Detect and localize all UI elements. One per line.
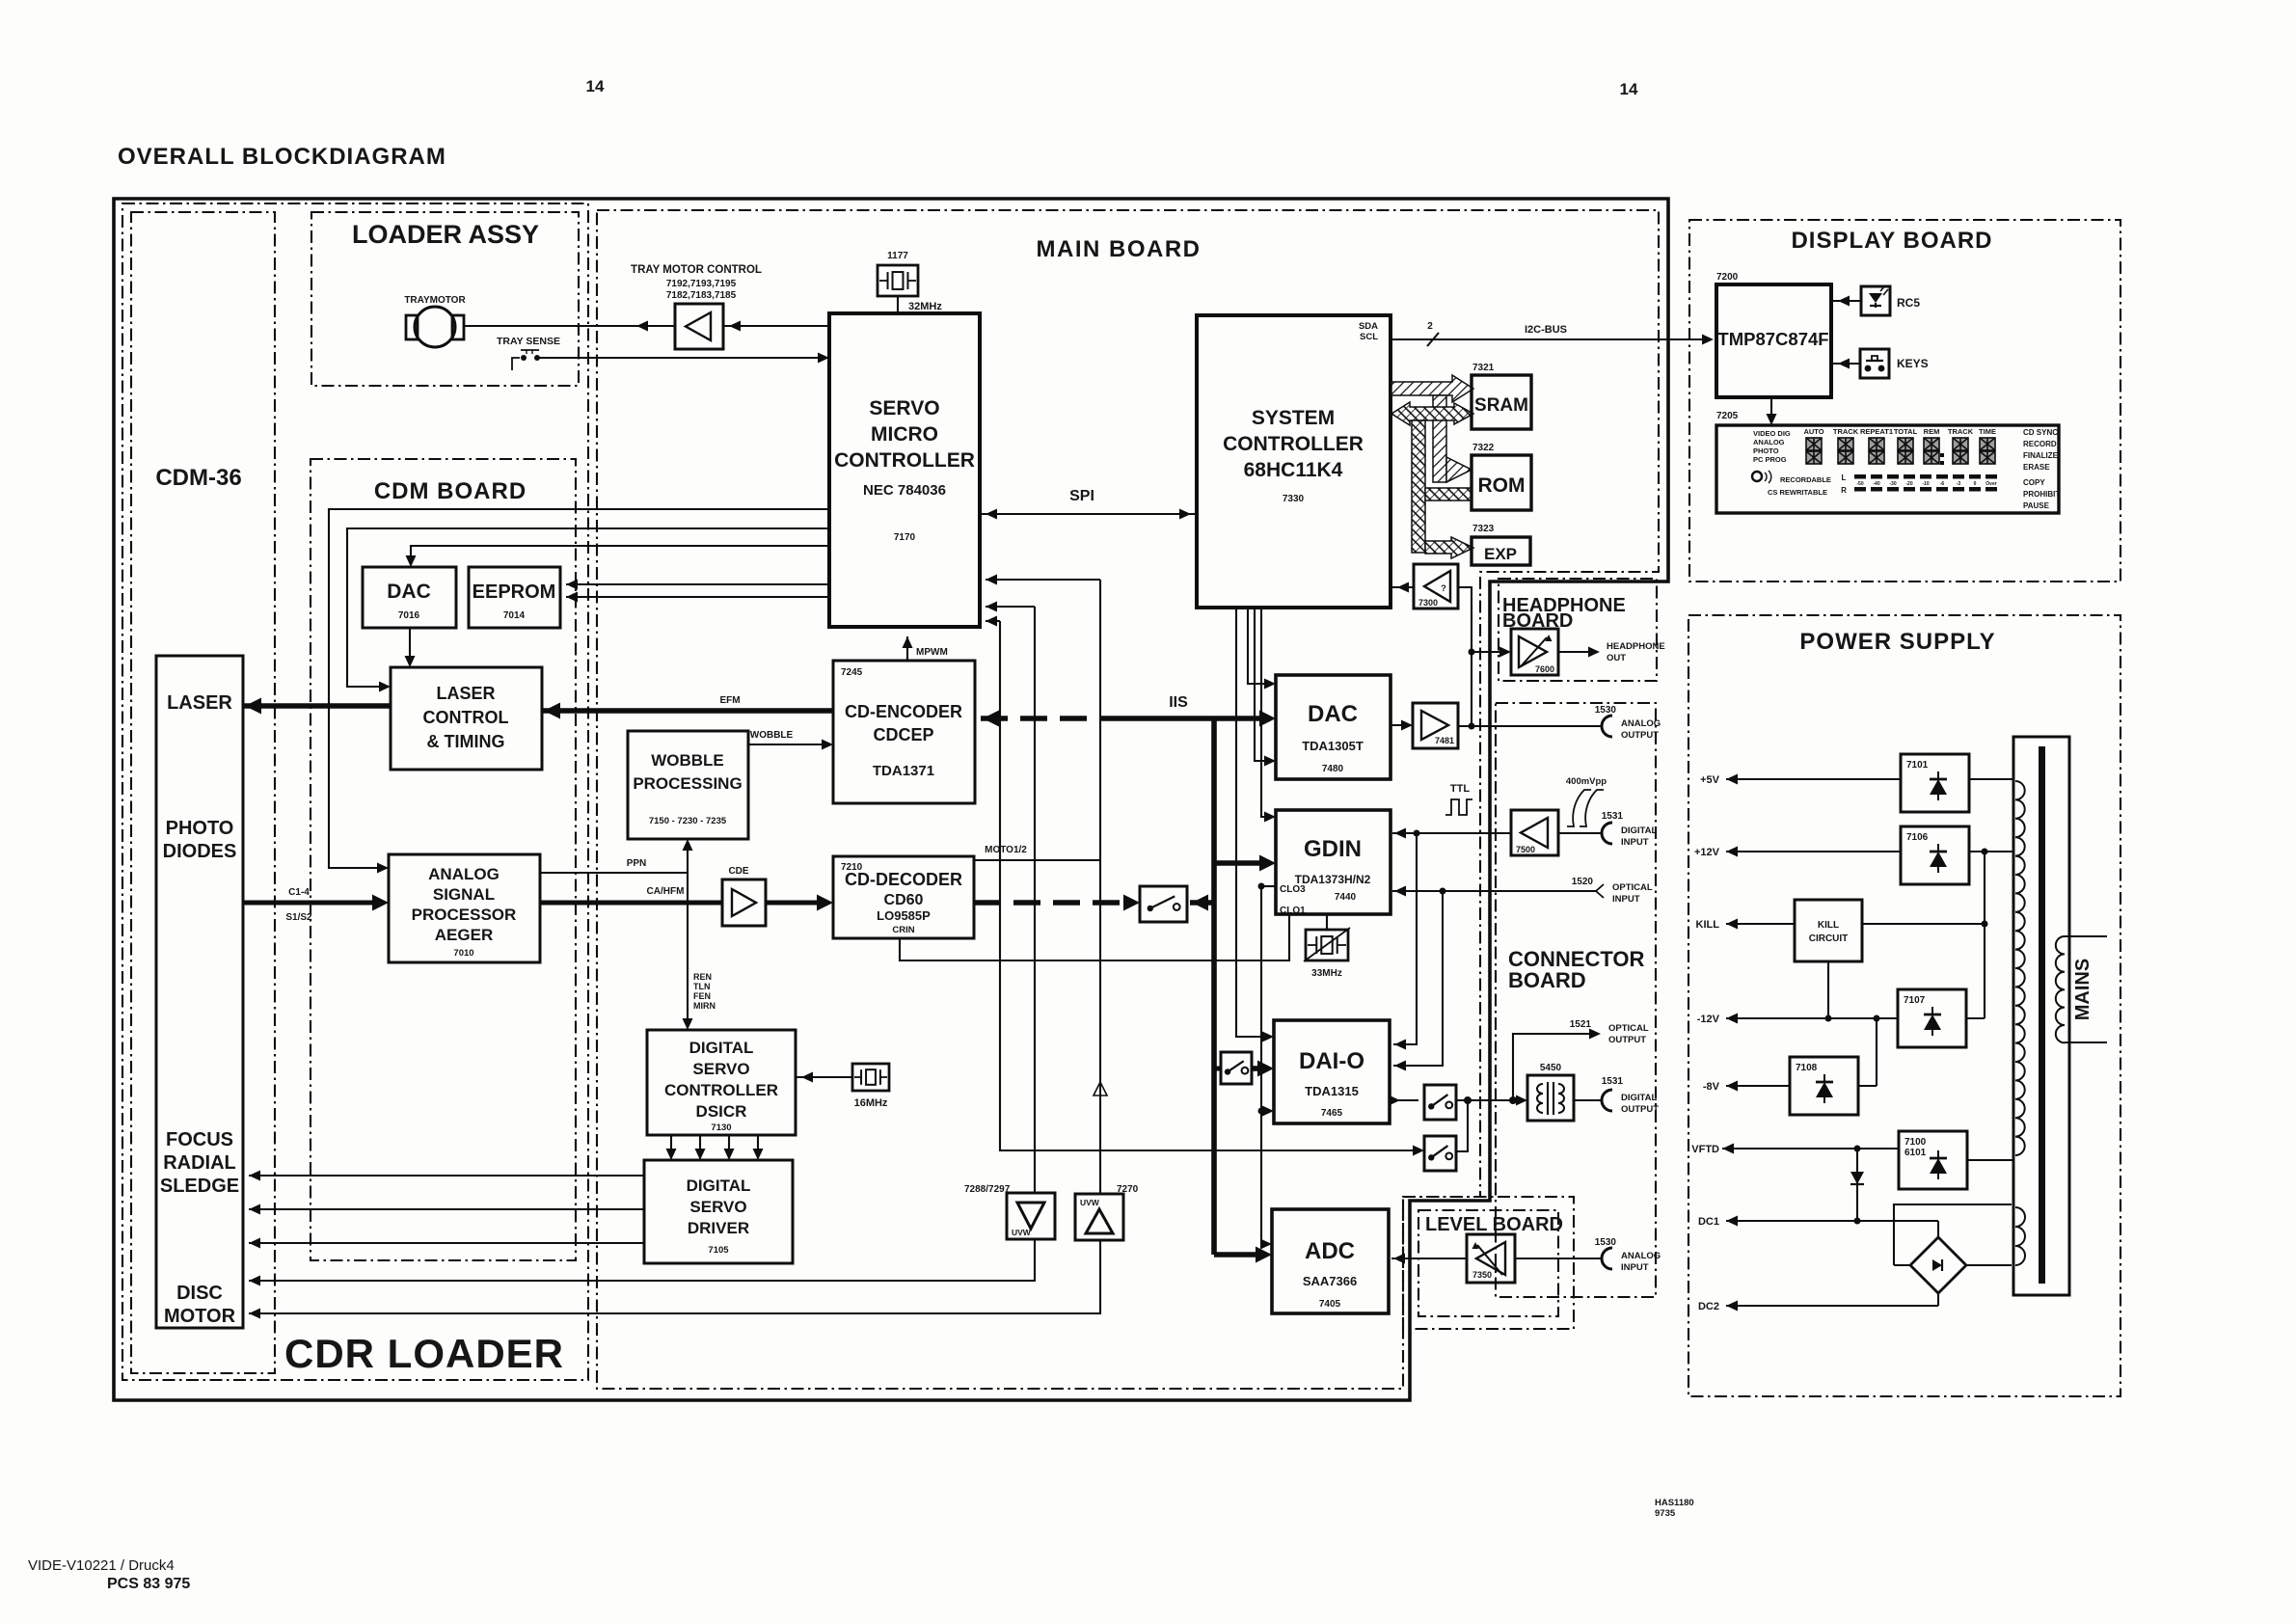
bridge loop wires xyxy=(1894,1264,1910,1266)
svg-text:IIS: IIS xyxy=(1169,694,1188,711)
svg-text:33MHz: 33MHz xyxy=(1311,968,1342,979)
svg-text:HEADPHONE: HEADPHONE xyxy=(1607,641,1665,652)
svg-text:AUTO: AUTO xyxy=(1803,427,1823,436)
svg-text:INPUT: INPUT xyxy=(1621,837,1649,848)
switch DAI-O digital out xyxy=(1424,1085,1456,1120)
switch below xyxy=(1424,1136,1456,1171)
svg-text:RECORDABLE: RECORDABLE xyxy=(1780,475,1831,484)
wire 7300 to controller xyxy=(1391,586,1414,588)
svg-text:SCL: SCL xyxy=(1360,332,1378,342)
svg-text:32MHz: 32MHz xyxy=(908,301,942,312)
optical input connector 1520 xyxy=(1392,890,1596,892)
DAC TDA1305T 7480 xyxy=(1276,675,1391,779)
rectifier 7106 xyxy=(1901,826,1969,884)
wire level board to ADC xyxy=(1391,1258,1467,1259)
svg-text:7200: 7200 xyxy=(1716,272,1739,283)
wire optical output xyxy=(1513,1034,1594,1100)
wire traymotor to control xyxy=(464,325,675,327)
svg-text:7500: 7500 xyxy=(1516,845,1535,854)
svg-text:DAC: DAC xyxy=(387,581,431,603)
svg-text:WOBBLE: WOBBLE xyxy=(750,730,794,741)
CD-ENCODER CDCEP TDA1371 7245 xyxy=(833,661,975,803)
svg-text:ANALOG: ANALOG xyxy=(1753,438,1785,446)
rectifier 7100/6101 xyxy=(1899,1131,1967,1189)
CDR LOADER dash-dot outline xyxy=(122,203,588,1380)
svg-text:MOTO1/2: MOTO1/2 xyxy=(985,845,1027,855)
svg-text:CONTROL: CONTROL xyxy=(423,708,509,727)
svg-text:DISPLAY BOARD: DISPLAY BOARD xyxy=(1791,228,1992,254)
wire servo b to disc motor via 7288 xyxy=(1034,607,1036,1193)
wires driver to focus radial sledge xyxy=(249,1175,644,1177)
svg-text:DIGITAL: DIGITAL xyxy=(1621,825,1657,836)
svg-text:7107: 7107 xyxy=(1904,995,1926,1006)
svg-text:OUTPUT: OUTPUT xyxy=(1608,1035,1646,1045)
MOTO1/2 wire decoder to motor drivers xyxy=(974,859,1100,861)
wire controller to DAC a xyxy=(1248,608,1270,684)
svg-text:-20: -20 xyxy=(1905,481,1912,487)
svg-text:7170: 7170 xyxy=(894,532,916,543)
wire DAI-O output to switch xyxy=(1390,1099,1418,1101)
wire crystal to servo xyxy=(897,296,899,313)
LEVEL BOARD dash-dot outlines xyxy=(1403,1197,1574,1329)
svg-text:CD-DECODER: CD-DECODER xyxy=(845,870,962,889)
CONNECTOR BOARD dash-dot outline xyxy=(1496,703,1656,1297)
wire TMP to display xyxy=(1770,397,1772,419)
svg-text:KILL: KILL xyxy=(1696,919,1720,931)
WOBBLE PROCESSING block xyxy=(628,731,748,839)
LASER CONTROL & TIMING block xyxy=(391,667,542,770)
CRIN wire decoder to GDIN xyxy=(900,914,1289,960)
diode to DC1 xyxy=(1856,1149,1858,1221)
svg-text:-8V: -8V xyxy=(1703,1081,1720,1093)
buffer 7300 xyxy=(1414,564,1458,609)
svg-text:EFM: EFM xyxy=(719,695,740,706)
svg-text:7105: 7105 xyxy=(708,1245,729,1256)
svg-text:FEN: FEN xyxy=(693,991,711,1001)
svg-text:7205: 7205 xyxy=(1716,411,1739,421)
svg-text:SLEDGE: SLEDGE xyxy=(160,1176,239,1197)
svg-text:CD60: CD60 xyxy=(884,892,924,908)
svg-text:MICRO: MICRO xyxy=(871,423,938,446)
traymotor M1 xyxy=(415,307,455,347)
svg-text:PAUSE: PAUSE xyxy=(2023,501,2050,510)
16MHz crystal xyxy=(852,1064,889,1091)
svg-text:R: R xyxy=(1841,486,1847,495)
svg-text:DC2: DC2 xyxy=(1698,1301,1719,1312)
wire crystal to DSICR xyxy=(796,1076,852,1078)
svg-text:TDA1371: TDA1371 xyxy=(873,763,934,779)
svg-text:7245: 7245 xyxy=(841,667,863,678)
svg-text:PPN: PPN xyxy=(627,858,647,869)
svg-text:ANALOG: ANALOG xyxy=(428,865,500,883)
svg-text:PROCESSING: PROCESSING xyxy=(633,774,742,793)
wire CDE to decoder (thick) xyxy=(766,901,827,906)
svg-text:7465: 7465 xyxy=(1321,1108,1343,1119)
svg-text:& TIMING: & TIMING xyxy=(427,732,505,751)
svg-text:TMP87C874F: TMP87C874F xyxy=(1717,329,1828,349)
KILL CIRCUIT block xyxy=(1795,900,1862,961)
svg-text:TIME: TIME xyxy=(1979,427,1996,436)
wire control to servo xyxy=(723,325,829,327)
svg-text:OUTPUT: OUTPUT xyxy=(1621,730,1659,741)
svg-text:MAIN BOARD: MAIN BOARD xyxy=(1037,236,1202,262)
data bus to SRAM/ROM/EXP (cross-hatched) xyxy=(1391,402,1473,558)
svg-text:7016: 7016 xyxy=(398,610,420,621)
svg-text:CRIN: CRIN xyxy=(892,925,914,935)
wire GDIN to crystal xyxy=(1326,914,1328,930)
svg-text:SERVO: SERVO xyxy=(689,1198,746,1216)
svg-text:HAS1180: HAS1180 xyxy=(1655,1498,1694,1508)
svg-text:7480: 7480 xyxy=(1322,764,1344,774)
svg-text:DIGITAL: DIGITAL xyxy=(687,1177,751,1195)
svg-text:1531: 1531 xyxy=(1602,1076,1624,1087)
svg-text:ADC: ADC xyxy=(1305,1238,1355,1264)
switch before DAI-O xyxy=(1221,1052,1252,1084)
svg-text:OVERALL BLOCKDIAGRAM: OVERALL BLOCKDIAGRAM xyxy=(118,144,446,170)
MPWM wire encoder to servo xyxy=(906,636,908,661)
CD-DECODER CD60 LO9585P 7210 xyxy=(833,856,974,938)
svg-text:PHOTO: PHOTO xyxy=(1753,446,1779,455)
PPN wire ASP to wobble and DSICR xyxy=(540,845,688,873)
svg-text:PCS 83 975: PCS 83 975 xyxy=(107,1576,190,1592)
svg-text:MIRN: MIRN xyxy=(693,1001,716,1011)
svg-text:TRAY SENSE: TRAY SENSE xyxy=(497,336,560,347)
svg-text:SERVO: SERVO xyxy=(692,1060,749,1078)
svg-text:NEC 784036: NEC 784036 xyxy=(863,482,946,499)
svg-text:DAI-O: DAI-O xyxy=(1299,1048,1364,1074)
svg-text:OUTPUT: OUTPUT xyxy=(1621,1104,1659,1115)
svg-text:7192,7193,7195: 7192,7193,7195 xyxy=(666,279,737,289)
svg-text:LO9585P: LO9585P xyxy=(877,908,931,923)
svg-text:7405: 7405 xyxy=(1319,1299,1341,1310)
svg-text:1521: 1521 xyxy=(1570,1019,1592,1030)
svg-text:7150 - 7230 - 7235: 7150 - 7230 - 7235 xyxy=(649,816,727,826)
svg-text:EEPROM: EEPROM xyxy=(473,582,556,603)
svg-text:INPUT: INPUT xyxy=(1621,1262,1649,1273)
svg-text:CDE: CDE xyxy=(728,866,748,877)
wire servo c to switch 7465 output xyxy=(1000,621,1418,1150)
ADC SAA7366 7405 xyxy=(1272,1209,1389,1313)
svg-text:TDA1373H/N2: TDA1373H/N2 xyxy=(1295,873,1371,886)
wire moto vertical to servo and disc motor xyxy=(1099,580,1101,1194)
wire DAC to 7481 xyxy=(1391,724,1407,726)
wire servo to EEPROM b xyxy=(566,596,829,598)
POWER SUPPLY dash-dot outline xyxy=(1688,615,2120,1396)
svg-text:6101: 6101 xyxy=(1904,1148,1927,1158)
outer solid enclosure xyxy=(114,199,1668,1400)
IIS branch to switch xyxy=(1190,900,1214,906)
MAIN BOARD dash-dot outline xyxy=(597,210,1659,1389)
buffer 7500 xyxy=(1511,810,1558,855)
svg-text:7350: 7350 xyxy=(1472,1270,1492,1280)
wire tray sense to servo xyxy=(539,357,829,359)
rectifier 7108 xyxy=(1790,1057,1858,1115)
svg-text:7600: 7600 xyxy=(1535,664,1554,674)
svg-text:7321: 7321 xyxy=(1472,363,1495,373)
svg-text:SAA7366: SAA7366 xyxy=(1303,1274,1357,1288)
CDM-36 dash-dot outline xyxy=(131,212,275,1373)
svg-text:CLO1: CLO1 xyxy=(1280,906,1306,916)
svg-text:OPTICAL: OPTICAL xyxy=(1608,1023,1649,1034)
svg-text:Over: Over xyxy=(1985,481,1996,487)
svg-text:TOTAL: TOTAL xyxy=(1894,427,1918,436)
tray motor control driver 7192 xyxy=(675,304,723,349)
svg-text:BOARD: BOARD xyxy=(1508,968,1586,992)
wire servo to EEPROM a xyxy=(566,583,829,585)
wire wobble to encoder xyxy=(748,744,827,745)
wire to headphone amp xyxy=(1472,651,1505,653)
svg-text:-6: -6 xyxy=(1940,481,1945,487)
wire servo to laser control xyxy=(347,528,829,687)
mains transformer xyxy=(2013,737,2069,1295)
svg-text:14: 14 xyxy=(586,77,605,95)
svg-text:7330: 7330 xyxy=(1283,494,1305,504)
svg-text:CS REWRITABLE: CS REWRITABLE xyxy=(1768,488,1827,497)
svg-text:RECORD: RECORD xyxy=(2023,440,2057,448)
svg-text:SIGNAL: SIGNAL xyxy=(433,885,495,904)
DIGITAL SERVO CONTROLLER DSICR 7130 xyxy=(647,1030,796,1135)
svg-text:REM: REM xyxy=(1924,427,1940,436)
svg-text:-30: -30 xyxy=(1889,481,1896,487)
wire servo right c xyxy=(986,620,1000,622)
svg-text:7014: 7014 xyxy=(503,610,526,621)
svg-text:7322: 7322 xyxy=(1472,443,1495,453)
svg-text:CONTROLLER: CONTROLLER xyxy=(834,449,975,472)
svg-text:I2C-BUS: I2C-BUS xyxy=(1525,324,1567,336)
svg-text:7101: 7101 xyxy=(1906,760,1929,771)
svg-text:-12V: -12V xyxy=(1697,1014,1720,1025)
svg-text:S1/S2: S1/S2 xyxy=(285,912,312,923)
svg-text:WOBBLE: WOBBLE xyxy=(651,751,724,770)
svg-text:CA/HFM: CA/HFM xyxy=(647,886,685,897)
svg-text:7288/7297: 7288/7297 xyxy=(964,1184,1011,1195)
svg-text:PHOTO: PHOTO xyxy=(166,818,234,839)
svg-text:DIGITAL: DIGITAL xyxy=(689,1039,754,1057)
svg-text:CIRCUIT: CIRCUIT xyxy=(1809,933,1849,944)
svg-text:7106: 7106 xyxy=(1906,832,1929,843)
svg-text:OUT: OUT xyxy=(1607,653,1626,663)
svg-text:7100: 7100 xyxy=(1904,1137,1927,1148)
CDE amplifier xyxy=(722,879,766,926)
svg-text:7182,7183,7185: 7182,7183,7185 xyxy=(666,290,737,301)
DISPLAY BOARD dash-dot outline xyxy=(1689,220,2120,582)
wire controller to DAC b xyxy=(1255,608,1270,761)
svg-text:7481: 7481 xyxy=(1435,736,1454,745)
svg-text:LOADER ASSY: LOADER ASSY xyxy=(352,220,539,249)
address bus to SRAM (hatched) xyxy=(1391,375,1473,482)
svg-text:REPEAT1: REPEAT1 xyxy=(1860,427,1893,436)
svg-text:AEGER: AEGER xyxy=(435,926,493,944)
svg-text:TDA1305T: TDA1305T xyxy=(1302,739,1364,753)
svg-text:UVW: UVW xyxy=(1012,1228,1032,1237)
wire digital input junction to DAI-O xyxy=(1393,833,1417,1044)
svg-text:7108: 7108 xyxy=(1796,1063,1818,1073)
mains primary winding xyxy=(2056,936,2065,1042)
wire KEYS to TMP xyxy=(1831,363,1860,365)
wire servo right a xyxy=(986,579,1100,581)
headphone amplifier 7600 xyxy=(1511,629,1558,675)
svg-text:LEVEL BOARD: LEVEL BOARD xyxy=(1425,1214,1563,1235)
svg-text:16MHz: 16MHz xyxy=(854,1097,888,1109)
svg-text:DIGITAL: DIGITAL xyxy=(1621,1093,1657,1103)
svg-text:TRACK: TRACK xyxy=(1948,427,1974,436)
svg-text:TTL: TTL xyxy=(1450,783,1470,795)
svg-text:LASER: LASER xyxy=(436,684,495,703)
rectifier 7101 xyxy=(1901,754,1969,812)
33MHz crystal (tunable) xyxy=(1306,930,1348,960)
wire KILL circuit to -12V line xyxy=(1827,961,1829,1018)
svg-text:7010: 7010 xyxy=(453,948,473,959)
svg-text:CD-ENCODER: CD-ENCODER xyxy=(845,702,962,721)
wire servo to ASP xyxy=(329,509,829,868)
svg-text:1531: 1531 xyxy=(1602,811,1624,822)
amplifier 7481 xyxy=(1413,703,1458,748)
wire servo to DAC 7016 xyxy=(411,546,829,561)
svg-text:SERVO: SERVO xyxy=(869,397,939,419)
SERVO MICRO CONTROLLER NEC 784036 7170 xyxy=(829,313,980,627)
svg-text:1177: 1177 xyxy=(887,251,908,261)
svg-text:-50: -50 xyxy=(1856,481,1863,487)
svg-text:?: ? xyxy=(1441,583,1446,593)
svg-text:CDCEP: CDCEP xyxy=(873,725,933,744)
svg-text:RC5: RC5 xyxy=(1897,296,1920,310)
svg-text:1530: 1530 xyxy=(1595,705,1617,716)
svg-text:VFTD: VFTD xyxy=(1691,1144,1719,1155)
svg-text:FINALIZE: FINALIZE xyxy=(2023,451,2059,460)
svg-text:2: 2 xyxy=(1427,321,1433,332)
svg-text:-10: -10 xyxy=(1922,481,1929,487)
HEADPHONE BOARD dash-dot outline xyxy=(1499,579,1657,681)
svg-text:DAC: DAC xyxy=(1308,701,1358,727)
SPI wire servo to system controller xyxy=(980,513,1197,515)
svg-text:1520: 1520 xyxy=(1572,877,1594,887)
svg-text:DSICR: DSICR xyxy=(696,1102,747,1121)
I2C-BUS wire xyxy=(1391,338,1708,340)
svg-text:PROHIBIT: PROHIBIT xyxy=(2023,490,2060,499)
wire 7481 to analog output xyxy=(1458,725,1601,727)
ANALOG SIGNAL PROCESSOR AEGER 7010 xyxy=(389,854,540,962)
wire headphone out xyxy=(1558,651,1593,653)
svg-text:L: L xyxy=(1842,473,1847,482)
svg-text:TLN: TLN xyxy=(693,982,711,991)
wire controller to GDIN xyxy=(1261,608,1270,817)
GDIN TDA1373H/N2 7440 xyxy=(1276,810,1391,914)
svg-text:-3: -3 xyxy=(1957,481,1961,487)
wire controller to DAI-O xyxy=(1236,608,1268,1037)
rectifier 7107 xyxy=(1898,989,1966,1047)
SYSTEM CONTROLLER 68HC11K4 7330 xyxy=(1197,315,1391,608)
wire DAC to laser control xyxy=(409,628,411,662)
svg-text:DIODES: DIODES xyxy=(163,841,237,862)
svg-text:7130: 7130 xyxy=(711,1123,731,1133)
svg-text:CONTROLLER: CONTROLLER xyxy=(664,1081,778,1099)
DIGITAL SERVO DRIVER 7105 xyxy=(644,1160,793,1263)
svg-text:7300: 7300 xyxy=(1418,598,1438,608)
svg-text:TRACK: TRACK xyxy=(1833,427,1859,436)
svg-text:TDA1315: TDA1315 xyxy=(1305,1084,1359,1098)
svg-text:TRAY MOTOR CONTROL: TRAY MOTOR CONTROL xyxy=(631,264,762,276)
svg-text:FOCUS: FOCUS xyxy=(166,1129,233,1150)
wires DSICR to driver xyxy=(670,1135,672,1156)
wire RC5 to TMP xyxy=(1831,300,1861,302)
svg-text:DC1: DC1 xyxy=(1698,1216,1719,1228)
DAC 7016 xyxy=(363,567,456,628)
EFM wire encoder to laser control (thick) xyxy=(542,708,833,713)
wire decoder to switch (thick dashed) xyxy=(974,900,1128,906)
laser/photodiodes/motor unit box xyxy=(156,656,243,1328)
IIS branch to GDIN xyxy=(1214,860,1268,866)
svg-text:CONTROLLER: CONTROLLER xyxy=(1223,433,1364,455)
EEPROM 7014 xyxy=(469,567,560,628)
CA/HFM wire ASP to CDE (thick) xyxy=(540,901,722,906)
svg-text:CDM BOARD: CDM BOARD xyxy=(374,478,527,504)
KEYS switches xyxy=(1860,349,1889,378)
svg-text:DISC: DISC xyxy=(176,1283,223,1304)
wire servo right b xyxy=(986,606,1035,608)
DAI-O TDA1315 7465 xyxy=(1274,1020,1390,1123)
svg-text:SPI: SPI xyxy=(1069,488,1094,504)
svg-text:14: 14 xyxy=(1620,80,1638,98)
bridge rectifier xyxy=(1910,1237,1966,1293)
svg-text:C1-4: C1-4 xyxy=(288,887,310,898)
svg-text:EXP: EXP xyxy=(1484,545,1517,563)
svg-text:GDIN: GDIN xyxy=(1304,836,1362,862)
svg-text:INPUT: INPUT xyxy=(1612,894,1640,905)
svg-text:MOTOR: MOTOR xyxy=(164,1306,236,1327)
wire optical input junction to DAI-O xyxy=(1393,891,1443,1066)
svg-text:1530: 1530 xyxy=(1595,1237,1617,1248)
svg-text:CDR LOADER: CDR LOADER xyxy=(284,1331,564,1376)
svg-text:PC PROG: PC PROG xyxy=(1753,455,1787,464)
svg-text:0: 0 xyxy=(1974,481,1977,487)
svg-text:+12V: +12V xyxy=(1694,847,1720,858)
svg-text:LASER: LASER xyxy=(167,692,232,714)
svg-text:TRAYMOTOR: TRAYMOTOR xyxy=(404,295,466,306)
svg-text:PROCESSOR: PROCESSOR xyxy=(412,906,517,924)
svg-text:-40: -40 xyxy=(1873,481,1879,487)
wire 7500 to GDIN digital input xyxy=(1392,832,1511,834)
wire connector to 7350 xyxy=(1515,1258,1601,1259)
svg-text:VIDE-V10221 / Druck4: VIDE-V10221 / Druck4 xyxy=(28,1557,175,1574)
svg-text:CDM-36: CDM-36 xyxy=(155,465,241,491)
svg-text:9735: 9735 xyxy=(1655,1508,1676,1519)
svg-text:VIDEO DIG: VIDEO DIG xyxy=(1753,429,1791,438)
CDM BOARD dash-dot outline xyxy=(311,459,576,1260)
wire laser control to laser (thick) xyxy=(243,703,391,708)
svg-text:+5V: +5V xyxy=(1700,774,1720,786)
svg-text:COPY: COPY xyxy=(2023,478,2045,487)
wire switch outputs junction xyxy=(1456,1099,1522,1101)
svg-text:OPTICAL: OPTICAL xyxy=(1612,882,1653,893)
svg-text:MPWM: MPWM xyxy=(916,647,948,658)
CLO3 wire to DAI-O and ADC xyxy=(1258,883,1265,890)
svg-text:CD SYNC: CD SYNC xyxy=(2023,428,2058,437)
IIS branch to ADC (thick) xyxy=(1214,1252,1264,1258)
svg-text:CLO3: CLO3 xyxy=(1280,884,1306,895)
svg-text:5450: 5450 xyxy=(1540,1063,1562,1073)
switch decoder/IIS xyxy=(1140,886,1187,922)
digital output connector 1531 xyxy=(1574,1099,1601,1101)
svg-text:REN: REN xyxy=(693,972,712,982)
svg-text:UVW: UVW xyxy=(1080,1198,1100,1207)
RC5 receiver xyxy=(1861,286,1890,315)
wire +12V tap down xyxy=(1984,852,1985,1018)
svg-text:400mVpp: 400mVpp xyxy=(1566,776,1607,787)
svg-text:POWER SUPPLY: POWER SUPPLY xyxy=(1799,629,1995,655)
svg-text:SRAM: SRAM xyxy=(1474,395,1528,416)
svg-text:MAINS: MAINS xyxy=(2072,959,2093,1020)
svg-text:7323: 7323 xyxy=(1472,524,1495,534)
